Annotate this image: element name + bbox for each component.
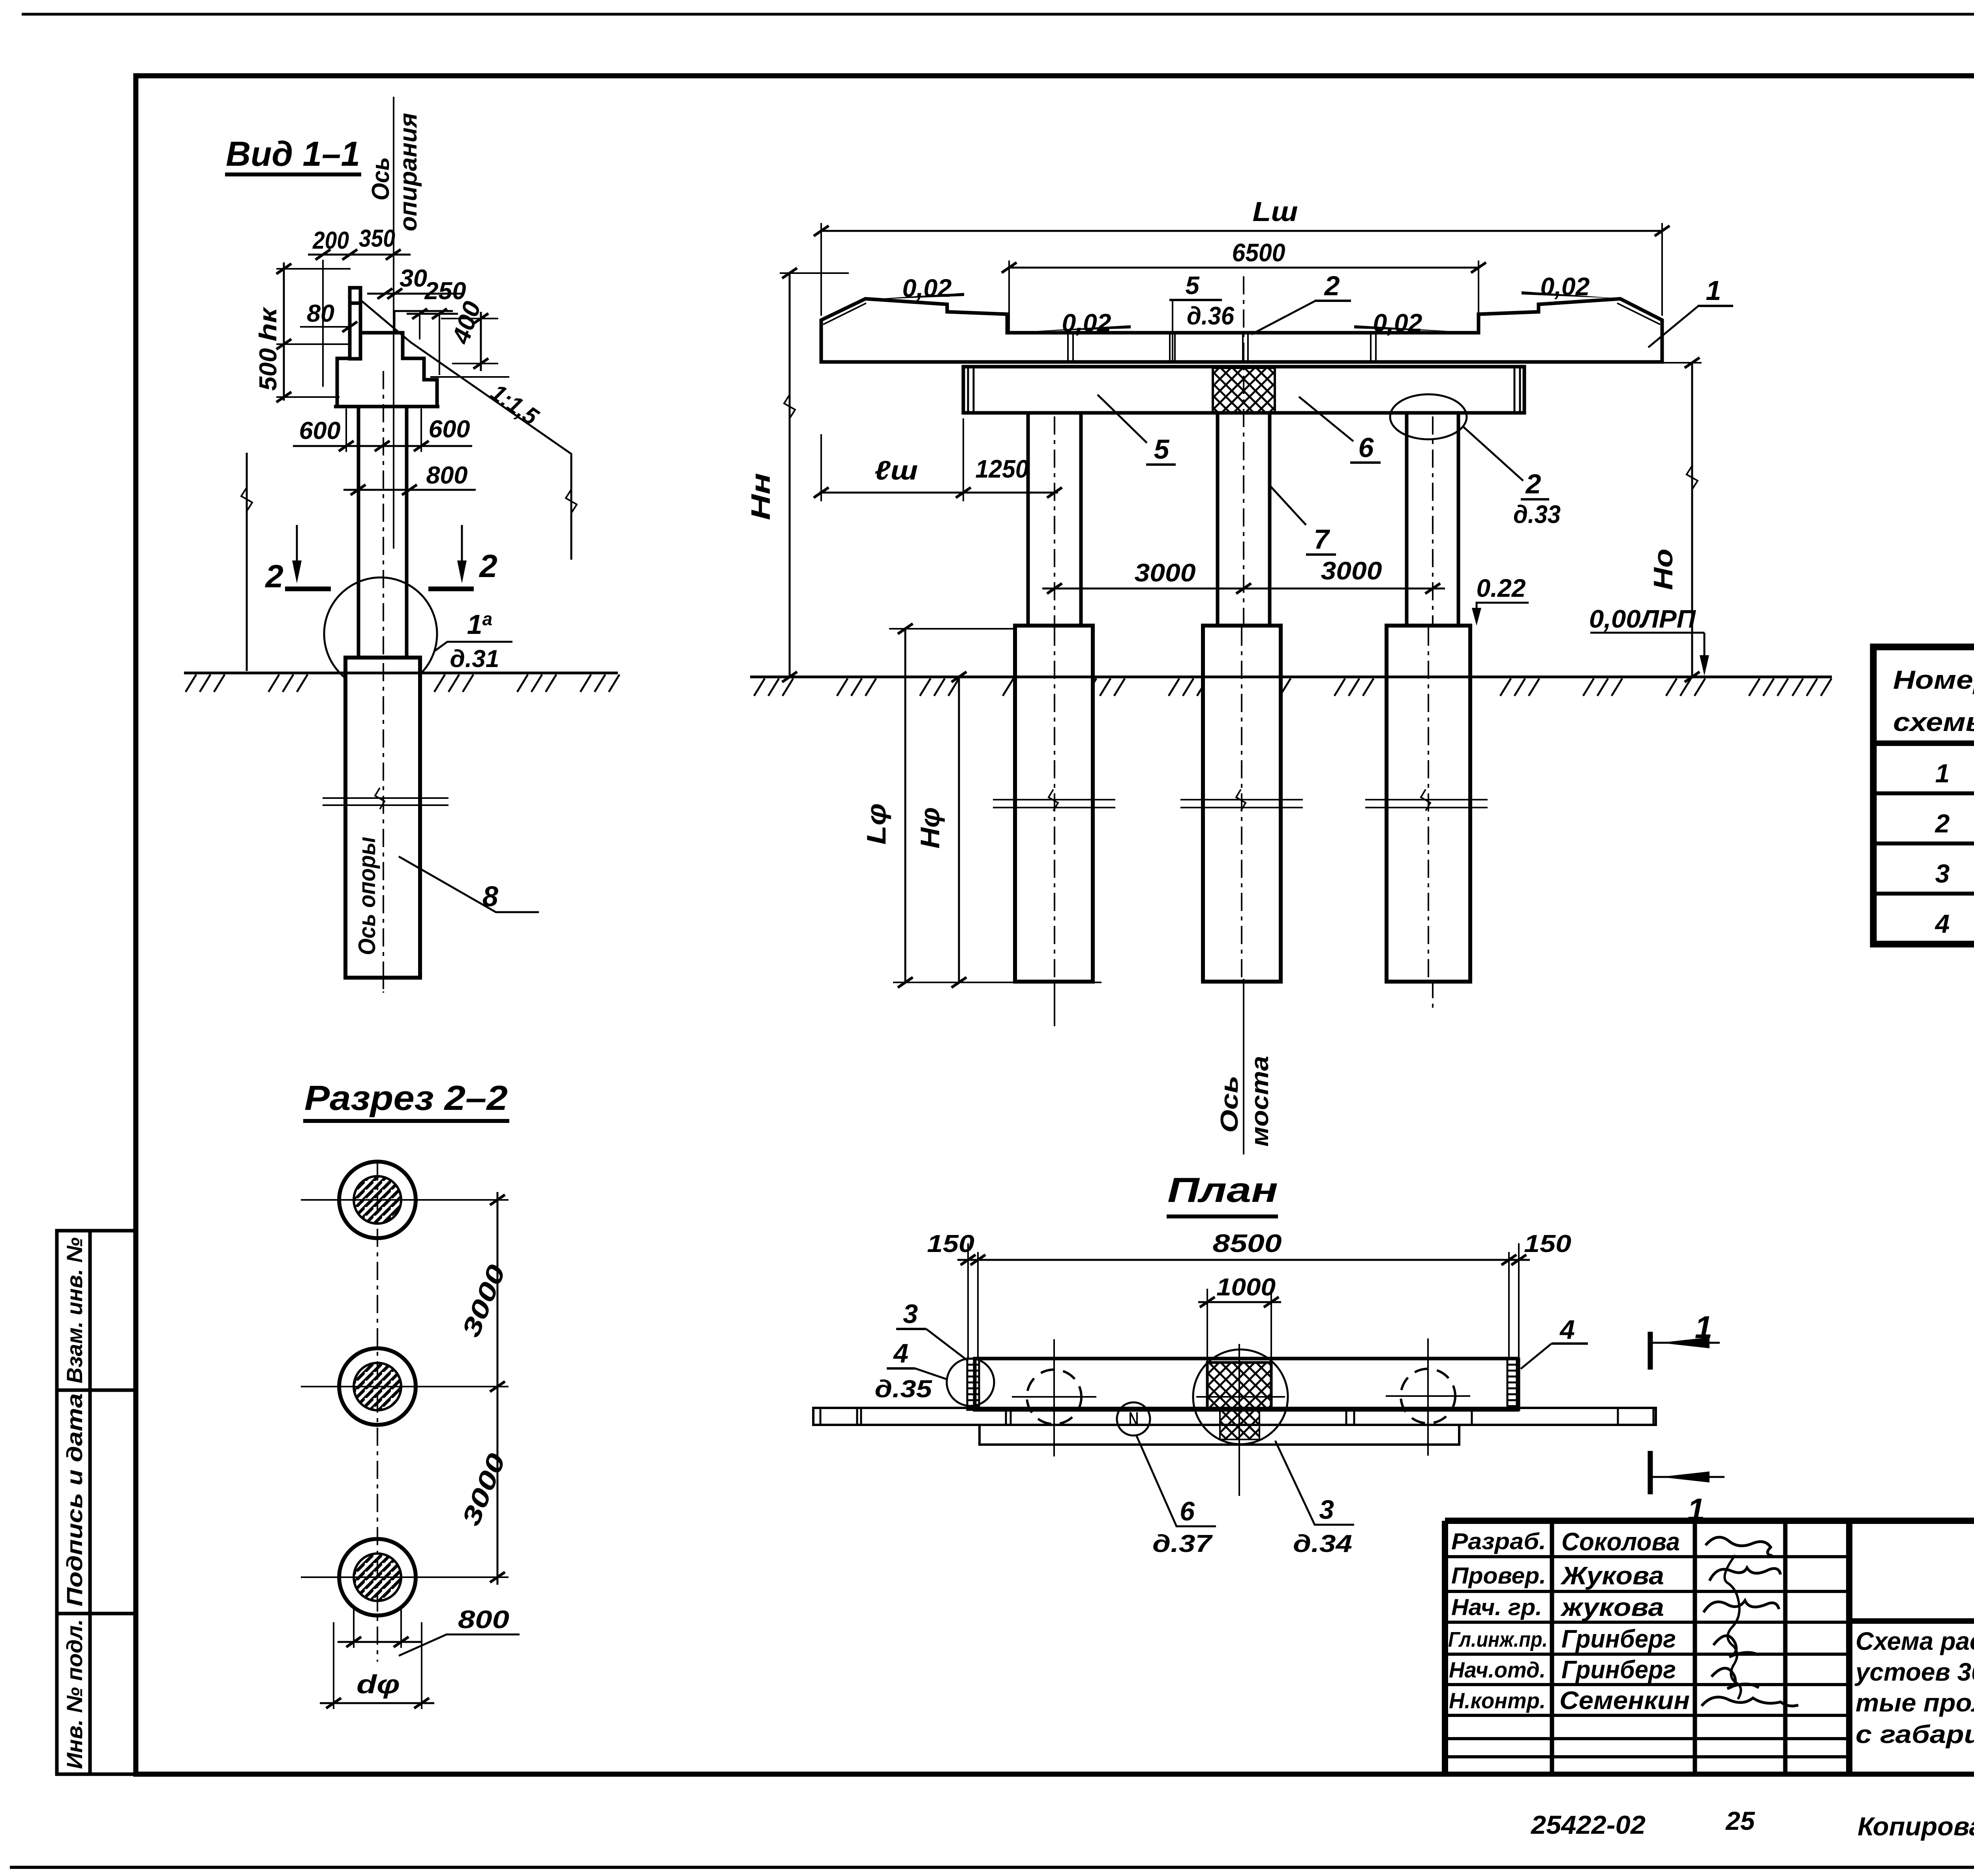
svg-text:1250: 1250 [976, 455, 1029, 483]
signature col line 4 / big divider [1846, 1521, 1852, 1774]
slab joint center [1243, 333, 1248, 362]
svg-text:25: 25 [1725, 1806, 1755, 1835]
ground hatch elevation [754, 678, 1831, 696]
extension lines left [276, 268, 351, 270]
8500 extensions [968, 1243, 1519, 1359]
svg-text:150: 150 [1524, 1230, 1571, 1258]
ext line 921 [452, 363, 498, 364]
extension Lш right [1661, 223, 1663, 316]
svg-text:д.31: д.31 [450, 645, 499, 673]
deck outline [821, 299, 1662, 362]
dim 8500 line [957, 1259, 1530, 1261]
slab joint right [1371, 333, 1376, 362]
shaft 3 outline [1387, 626, 1470, 982]
svg-text:3000: 3000 [456, 1449, 511, 1529]
strip left end cap [820, 1408, 822, 1425]
svg-text:6: 6 [1180, 1496, 1195, 1526]
svg-text:2: 2 [265, 558, 283, 594]
pile 3 columns [1407, 413, 1458, 626]
svg-text:Ось опоры: Ось опоры [354, 837, 380, 955]
pile axes dash-dot [1055, 276, 1433, 1010]
svg-text:Lш: Lш [1253, 196, 1298, 227]
shaft white covers [1015, 626, 1093, 982]
dim Нн vertical [789, 273, 791, 677]
ось моста line below [1243, 979, 1244, 1154]
shaft axes re-draw [1055, 628, 1428, 980]
svg-text:8500: 8500 [1213, 1229, 1282, 1258]
svg-text:Нн: Нн [746, 473, 776, 520]
svg-text:0,02: 0,02 [903, 274, 952, 302]
svg-text:500: 500 [255, 348, 282, 391]
beam soffit [394, 311, 453, 333]
number cell bottom line [1849, 1618, 1974, 1624]
dim 6500 line [1009, 267, 1479, 269]
dim ℓш / 1250 [819, 492, 1058, 494]
dashed pile circle 3 [1386, 1338, 1470, 1456]
svg-text:д.33: д.33 [1513, 500, 1561, 529]
svg-text:Семенкин: Семенкин [1559, 1686, 1690, 1715]
crosshatched deformation block [1213, 368, 1275, 413]
cap end block right [1514, 367, 1520, 413]
svg-text:Нач.отд.: Нач.отд. [1449, 1657, 1546, 1682]
shaft break symbols [993, 789, 1488, 811]
table row lines [1873, 791, 1974, 795]
signature col line 1 [1550, 1521, 1554, 1774]
pile1 axis below [1054, 982, 1055, 1026]
svg-text:dφ: dφ [357, 1670, 400, 1699]
dim 200 extension [322, 260, 324, 387]
left slope break mark [241, 487, 252, 511]
svg-text:Н.контр.: Н.контр. [1449, 1688, 1546, 1713]
dim Lш line [821, 230, 1662, 232]
dim 80 line [300, 326, 350, 328]
left strip box [57, 1231, 136, 1774]
deck slope double line left [823, 303, 866, 324]
svg-text:1: 1 [1706, 275, 1721, 306]
plan title underline [1167, 1214, 1278, 1218]
dim Lф vertical [904, 629, 906, 982]
svg-text:Инв. № подл.: Инв. № подл. [62, 1619, 87, 1769]
svg-text:3: 3 [1935, 859, 1950, 888]
pile circle 1 [301, 1162, 509, 1238]
ground hatch view1 [186, 675, 619, 692]
signatures squiggles [1702, 1537, 1798, 1706]
svg-text:Провер.: Провер. [1451, 1563, 1546, 1589]
vertical dim line 3000/3000 [497, 1192, 499, 1585]
shaft 1 outline [1015, 626, 1093, 982]
pile 1 columns [1028, 413, 1081, 626]
signature row lines [1445, 1555, 1849, 1558]
svg-text:7: 7 [1314, 524, 1330, 555]
ground line view1 [184, 672, 618, 675]
svg-text:Разраб.: Разраб. [1451, 1529, 1546, 1554]
title block outer top edge [1445, 1518, 1974, 1524]
svg-text:1:1,5: 1:1,5 [486, 379, 544, 431]
buried pile outline [345, 658, 420, 978]
svg-text:1: 1 [1695, 1310, 1713, 1345]
title block left edge [1442, 1521, 1448, 1774]
svg-text:hк: hк [255, 307, 282, 341]
extension Lш left [820, 223, 822, 316]
leader 7 [1270, 486, 1306, 525]
шкафная стенка wall [350, 288, 360, 359]
svg-text:3: 3 [903, 1299, 918, 1329]
svg-text:0,02: 0,02 [1062, 309, 1111, 337]
small detail circle д.37 [1117, 1402, 1150, 1436]
dashed pile circle 1 [1012, 1339, 1096, 1456]
svg-text:Вид 1–1: Вид 1–1 [226, 134, 360, 173]
svg-text:25422-02: 25422-02 [1530, 1810, 1646, 1839]
big detail circle д.34 [1193, 1349, 1288, 1444]
deck slope double line right [1617, 303, 1660, 324]
slope line 1:1.5 [411, 342, 571, 560]
dim 3000/3000 elevation [1042, 588, 1445, 590]
pile circle 2 [301, 1348, 509, 1425]
svg-text:д.36: д.36 [1187, 302, 1234, 330]
dim 30 line [367, 293, 464, 295]
svg-text:Подпись и дата: Подпись и дата [62, 1393, 87, 1606]
svg-text:200: 200 [312, 227, 349, 254]
slab joint 5 [1170, 333, 1175, 362]
svg-text:4: 4 [1935, 909, 1950, 938]
small mark inside [1130, 1412, 1137, 1426]
detail circle 1a [324, 577, 437, 690]
dim dф line [320, 1702, 434, 1704]
svg-text:0.22: 0.22 [1477, 574, 1526, 602]
svg-text:1a: 1a [467, 609, 493, 640]
ext line 955 [430, 376, 509, 378]
title underline [225, 172, 361, 176]
dim Hо vertical [1691, 363, 1693, 677]
svg-text:д.37: д.37 [1152, 1530, 1213, 1557]
svg-text:моста: моста [1246, 1056, 1274, 1147]
svg-text:схемы: схемы [1893, 707, 1974, 737]
leader 6/д.37 [1136, 1435, 1216, 1526]
svg-text:Соколова: Соколова [1561, 1527, 1680, 1556]
svg-text:Разрез 2–2: Разрез 2–2 [304, 1078, 508, 1117]
table header bottom line [1873, 740, 1974, 746]
dim Hф vertical [958, 677, 960, 982]
pile break symbol [323, 788, 448, 809]
ext line 807 [441, 318, 498, 319]
svg-text:4: 4 [1559, 1315, 1575, 1345]
svg-text:опирания: опирания [395, 113, 422, 231]
leader 1 [1648, 306, 1698, 347]
bearing axis line [393, 97, 394, 549]
leader 3/д.34 [1275, 1441, 1354, 1525]
buried pile white cover [345, 658, 420, 978]
svg-text:30: 30 [400, 265, 427, 292]
support axis dash-dot [383, 371, 384, 993]
svg-text:План: План [1167, 1170, 1278, 1209]
svg-text:3000: 3000 [1135, 558, 1196, 587]
section mark 2 right [428, 525, 474, 589]
dim 400 line [480, 312, 482, 371]
svg-text:150: 150 [927, 1230, 974, 1258]
svg-text:Но: Но [1648, 549, 1678, 590]
svg-text:Гринберг: Гринберг [1561, 1655, 1676, 1684]
dim 250 extensions [419, 314, 420, 339]
right ladder strip [1507, 1359, 1519, 1410]
svg-text:2: 2 [478, 548, 497, 584]
svg-text:3000: 3000 [456, 1261, 511, 1341]
svg-text:Схема расположения элементов: Схема расположения элементов [1856, 1627, 1974, 1655]
svg-text:5: 5 [1185, 271, 1200, 300]
svg-text:д.35: д.35 [875, 1376, 933, 1403]
leader 2/д.33 [1463, 426, 1523, 481]
svg-text:Номер: Номер [1893, 665, 1974, 694]
shaft 2 outline [1203, 626, 1281, 982]
slope break mark [566, 489, 577, 513]
slab strip plan [813, 1408, 1656, 1425]
svg-text:Копировал Мазаева: Копировал Мазаева [1858, 1812, 1974, 1841]
dim 200/350 line [308, 254, 411, 256]
svg-text:жукова: жукова [1560, 1593, 1664, 1621]
svg-text:Ось: Ось [367, 157, 394, 201]
svg-text:6: 6 [1359, 432, 1374, 463]
section mark 1 lower [1648, 1451, 1653, 1494]
cap rectangle plan [975, 1359, 1518, 1410]
center pile centerlines [1238, 1344, 1240, 1496]
svg-text:д.34: д.34 [1293, 1530, 1352, 1557]
svg-text:тые пролетные строения: тые пролетные строения [1856, 1689, 1974, 1717]
strip right end cap [1617, 1408, 1619, 1425]
svg-text:600: 600 [429, 416, 470, 443]
extension 6500 right [1478, 261, 1479, 332]
dim 800 line [338, 1641, 422, 1643]
deck bottom line [821, 360, 1662, 364]
dim 800 line [343, 489, 476, 491]
sheet top edge [22, 13, 1974, 16]
svg-text:Нач. гр.: Нач. гр. [1451, 1595, 1542, 1620]
svg-text:Нφ: Нφ [915, 807, 945, 849]
svg-text:600: 600 [299, 417, 341, 444]
svg-text:8: 8 [482, 881, 498, 913]
column shaft sides [357, 407, 360, 658]
extension 6500 left [1008, 261, 1010, 332]
left hidden slope line [246, 453, 248, 671]
leader 5 lower [1098, 395, 1147, 443]
cap beam [963, 367, 1524, 413]
svg-text:1: 1 [1687, 1492, 1705, 1527]
dim 250 line [407, 313, 458, 315]
signature col line 2 [1693, 1521, 1697, 1774]
svg-text:3000: 3000 [1321, 557, 1382, 585]
svg-text:1: 1 [1935, 759, 1950, 788]
svg-text:устоев 30КВ Lш. Нн под ребрис-: устоев 30КВ Lш. Нн под ребрис- [1854, 1658, 1974, 1686]
svg-text:Ось: Ось [1216, 1076, 1243, 1133]
svg-text:Взам. инв. №: Взам. инв. № [62, 1237, 87, 1383]
detail circle д.35 [947, 1359, 994, 1406]
leader 800 [399, 1634, 520, 1656]
crosshatch square center pile [1207, 1362, 1271, 1410]
slab joint left [1068, 333, 1073, 362]
svg-text:1000: 1000 [1216, 1274, 1276, 1301]
cap outline [337, 333, 437, 407]
section mark 2 left [285, 525, 331, 589]
svg-text:2: 2 [1525, 469, 1541, 499]
svg-text:Гл.инж.пр.: Гл.инж.пр. [1448, 1628, 1548, 1651]
svg-text:4: 4 [893, 1338, 908, 1368]
left ladder strip [967, 1359, 979, 1410]
svg-text:Гринберг: Гринберг [1561, 1625, 1676, 1653]
pile circle 3 [301, 1539, 509, 1615]
leader 6 lower [1299, 397, 1353, 441]
dim 1000 [1198, 1301, 1281, 1303]
leader 2 top [1252, 301, 1315, 334]
svg-text:3: 3 [1319, 1495, 1334, 1525]
svg-text:5: 5 [1154, 434, 1170, 465]
section mark 1 upper [1648, 1332, 1653, 1370]
svg-text:Жукова: Жукова [1560, 1561, 1664, 1590]
dф extension lines [333, 1622, 334, 1709]
svg-text:ℓш: ℓш [874, 455, 918, 485]
detail ellipse на свае [1390, 394, 1467, 439]
svg-text:800: 800 [458, 1605, 509, 1634]
svg-text:800: 800 [426, 462, 468, 489]
pile 2 columns [1218, 413, 1270, 626]
signature col line 3 [1783, 1521, 1788, 1774]
svg-text:с габаритами Г-6,5+ 2×0,75;: с габаритами Г-6,5+ 2×0,75; [1856, 1720, 1974, 1749]
dim 600-600 line [293, 445, 472, 447]
leader 5/д.36 vertical [1172, 300, 1173, 362]
svg-text:80: 80 [307, 300, 334, 327]
svg-text:2: 2 [1935, 809, 1950, 838]
sheet bottom edge [10, 1866, 1974, 1869]
pile axis re-draw [383, 663, 384, 993]
hatched tongue below [1220, 1410, 1259, 1439]
svg-text:0,00ЛРП: 0,00ЛРП [1589, 605, 1696, 633]
lower slab outline [979, 1425, 1459, 1445]
cap bottom thick line [334, 405, 439, 409]
footing level ext line [889, 628, 1021, 630]
svg-text:0,02: 0,02 [1373, 309, 1422, 337]
leader 8 [399, 856, 539, 912]
ground line elevation [750, 676, 1832, 678]
left dim column line hк/500 [283, 262, 285, 401]
vertical centerline [377, 1162, 378, 1662]
svg-text:6500: 6500 [1232, 238, 1285, 267]
sloping line from wall top [360, 300, 411, 342]
leader 1a [434, 642, 512, 651]
bottom ext line [893, 982, 1101, 983]
table outer border [1873, 647, 1974, 944]
svg-text:2: 2 [1324, 270, 1340, 301]
svg-text:350: 350 [359, 225, 395, 252]
strip joints [857, 1408, 1472, 1425]
bottom extension lines 800 [353, 1606, 355, 1648]
svg-text:Lφ: Lφ [861, 803, 891, 845]
section title underline [303, 1119, 509, 1123]
cap end block left [968, 367, 974, 413]
